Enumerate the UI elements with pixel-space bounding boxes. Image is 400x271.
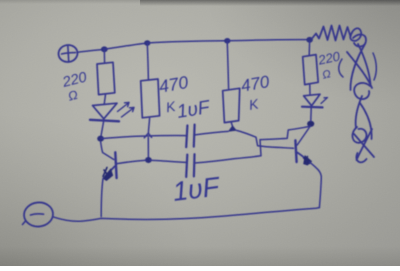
node C1 (Q1 collector) [97, 136, 104, 142]
wire top rail V1-V2 [104, 43, 146, 49]
node C2 (Q2 collector) [307, 121, 314, 127]
wire R2 to LED D2 [309, 85, 311, 94]
transistor Q2 emitter lead + arrow [298, 153, 308, 160]
wire bottom rail up to Q2 emitter [310, 162, 322, 207]
wire D2 to node C2 [310, 108, 312, 121]
LED D2 triangle [304, 94, 320, 106]
node V3 [224, 38, 230, 44]
resistor R2 220 body [303, 55, 319, 85]
capacitor C2a left plate [186, 155, 187, 177]
LED D2 arrow [321, 98, 328, 104]
transistor Q2 collector lead [297, 127, 310, 146]
resistor R3 470K body [141, 79, 160, 118]
wire R2 220 right from V4 [308, 42, 310, 56]
wire top rail V2-V3 [148, 41, 227, 43]
resistor R1 220 (left) body [97, 62, 115, 94]
scribble blob right side [347, 34, 372, 90]
plus terminal [57, 44, 78, 63]
capacitor C1a left plate [186, 126, 187, 148]
LED D1 cathode bar [90, 120, 119, 122]
wire node C2 to capacitor C2a (staircase) [195, 126, 311, 163]
wire plus to node V1 [78, 50, 103, 53]
transistor Q1 base bar [115, 152, 116, 178]
wire D1 to node C1 [101, 122, 104, 137]
wire V3 to R4 [227, 41, 228, 88]
capacitor C1a right plate [193, 125, 196, 147]
wire Q1 emitter down [101, 179, 103, 217]
node V1 [101, 46, 108, 52]
wire cap C1a to R4 junction and Q2 base [194, 131, 228, 135]
wire V2 to R3 [147, 44, 148, 80]
node V2 [144, 40, 150, 46]
wire R1 to LED D1 [104, 95, 105, 104]
capacitor C2a right plate [193, 154, 196, 176]
transistor Q1 collector lead [101, 142, 114, 160]
transistor Q1 emitter lead + arrow [106, 167, 115, 177]
minus terminal [23, 201, 55, 228]
LED D1 triangle [93, 103, 118, 119]
wire R4 to base rail with triangle junction [231, 123, 232, 126]
wire V1 to R1 [103, 50, 105, 63]
LED D2 cathode bar [302, 106, 323, 109]
wire rail C1 to capacitor C1a [101, 136, 186, 139]
wire top rail V3-V4 [228, 40, 309, 41]
wire Q1 base to node B1 to cap C2a [117, 160, 186, 163]
node B1 (Q1 base / R3 / C2) [145, 157, 152, 163]
wire R3 down crossing rail, bump [148, 118, 149, 133]
node V4 [306, 37, 313, 43]
LED D1 arrows [118, 103, 130, 112]
scribble zigzag top right [312, 26, 361, 41]
transistor Q2 base bar [295, 140, 296, 162]
wire bottom rail [53, 208, 320, 222]
resistor R4 470K body [223, 88, 240, 122]
